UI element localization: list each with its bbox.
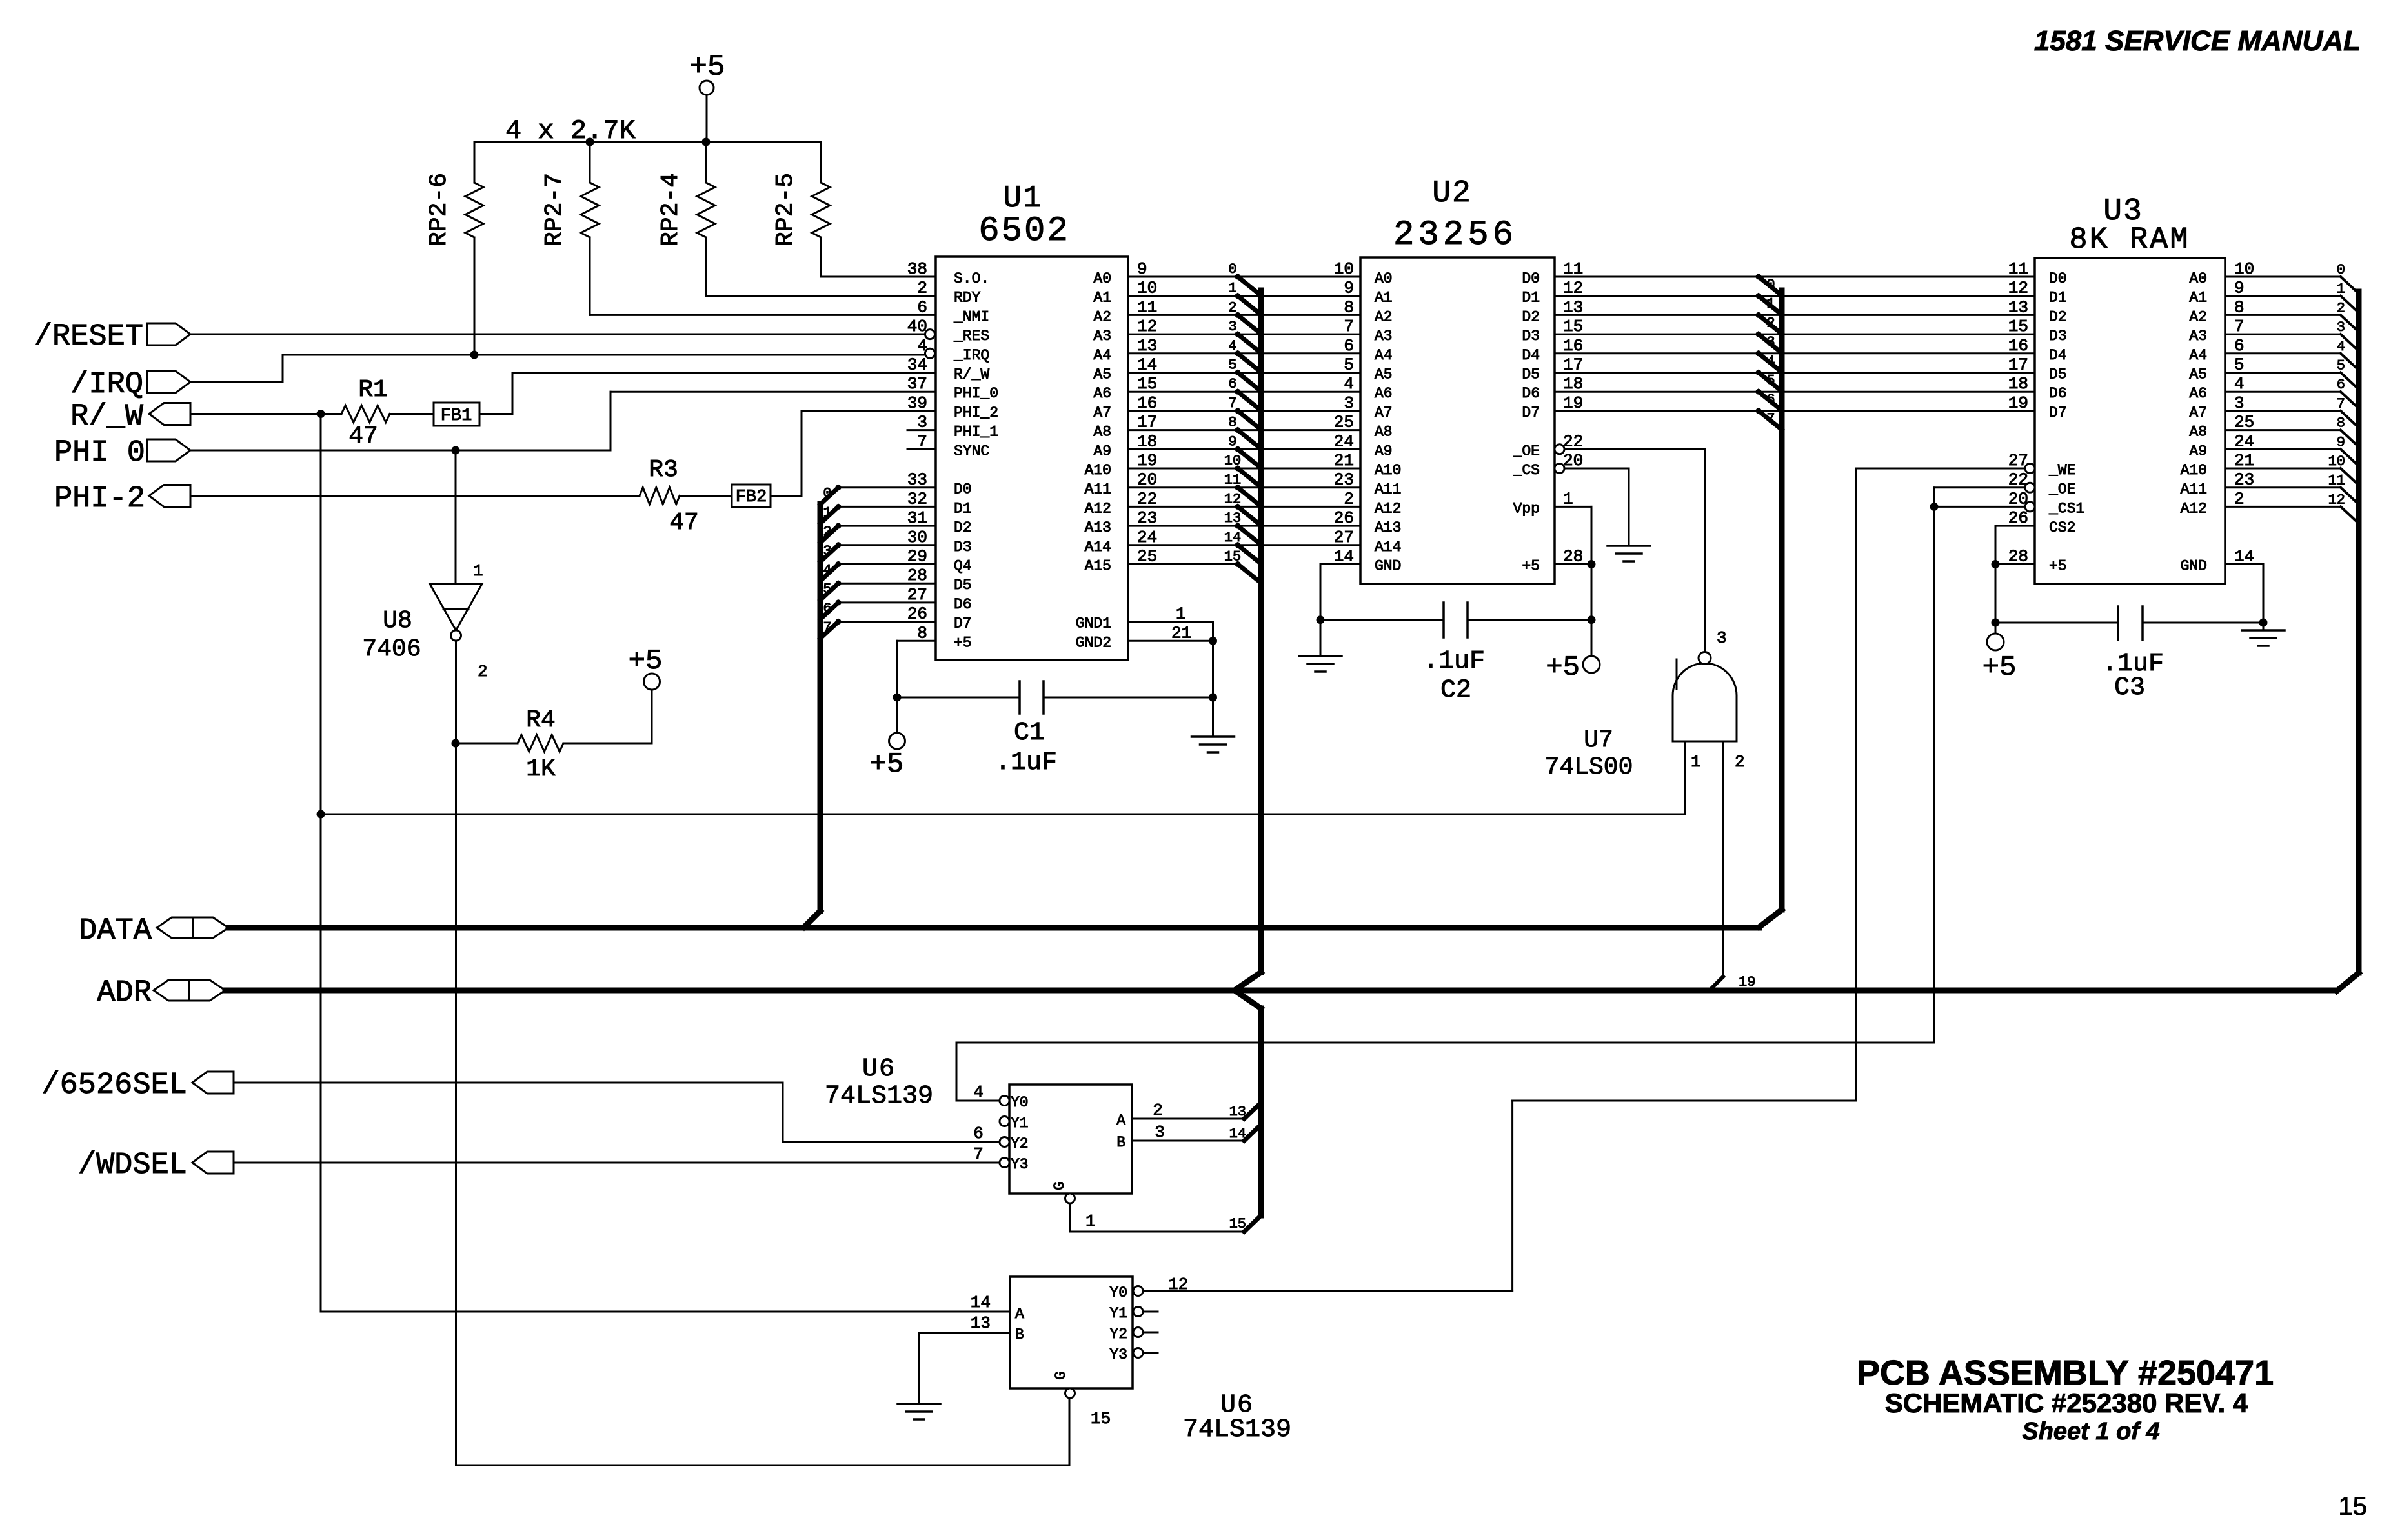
svg-text:8: 8 [2337, 415, 2345, 432]
svg-text:DATA: DATA [79, 914, 152, 948]
svg-text:0: 0 [823, 486, 831, 502]
svg-text:9: 9 [1344, 279, 1354, 298]
svg-text:GND1: GND1 [1076, 615, 1111, 632]
svg-text:74LS00: 74LS00 [1545, 754, 1633, 781]
wire DATA bus [228, 925, 1759, 931]
svg-text:A0: A0 [1093, 270, 1111, 287]
capacitor C3 [1995, 606, 2263, 703]
svg-text:ADR: ADR [97, 976, 152, 1010]
svg-text:B: B [1015, 1326, 1024, 1343]
value label 4 x 2.7K [505, 115, 636, 146]
svg-text:7: 7 [1228, 395, 1236, 412]
svg-text:Vpp: Vpp [1513, 500, 1540, 517]
svg-text:4: 4 [1344, 374, 1354, 394]
svg-text:8: 8 [1344, 297, 1354, 317]
svg-text:13: 13 [971, 1314, 991, 1333]
port PHI 0 [54, 436, 190, 470]
svg-text:Y3: Y3 [1011, 1156, 1029, 1173]
ground (U3) [2242, 630, 2285, 646]
svg-text:D1: D1 [954, 500, 972, 517]
svg-text:7: 7 [1766, 411, 1775, 427]
svg-text:PHI 0: PHI 0 [54, 436, 145, 470]
wire U1 GND1 [1128, 605, 1213, 737]
wire U7 pin2 to ADR tap 19 [1710, 741, 1723, 990]
svg-text:SYNC: SYNC [954, 443, 989, 459]
svg-text:A7: A7 [1375, 405, 1393, 421]
svg-text:24: 24 [1334, 432, 1354, 451]
wire U3 _OE [1934, 486, 2025, 488]
svg-text:A5: A5 [1375, 366, 1393, 383]
pin 12 label U6b [1168, 1275, 1188, 1294]
wire resistor pack rail [474, 141, 821, 143]
svg-text:C3: C3 [2114, 674, 2145, 703]
svg-text:11: 11 [2008, 259, 2028, 279]
svg-text:RP2-4: RP2-4 [657, 173, 685, 246]
svg-text:.1uF: .1uF [1423, 647, 1485, 676]
svg-text:7: 7 [973, 1145, 984, 1164]
svg-text:Y2: Y2 [1011, 1135, 1029, 1152]
svg-text:A0: A0 [2189, 270, 2207, 287]
svg-text:PCB ASSEMBLY #250471: PCB ASSEMBLY #250471 [1857, 1354, 2274, 1392]
junction C1 left [893, 694, 902, 702]
svg-text:4: 4 [1228, 338, 1236, 354]
wire U7 pin1 to R/_W node [321, 741, 1685, 814]
svg-text:5: 5 [1766, 373, 1775, 389]
svg-text:15: 15 [1224, 549, 1241, 565]
resistor RP2-7 [541, 142, 936, 315]
svg-text:6: 6 [1228, 376, 1236, 392]
svg-text:6502: 6502 [978, 212, 1070, 251]
svg-text:D5: D5 [954, 577, 972, 594]
U3 left pin names [2048, 270, 2084, 575]
U6a pin names [1011, 1094, 1125, 1190]
wire U3 _WE [1856, 468, 2025, 470]
svg-text:A12: A12 [1375, 500, 1401, 517]
pin 1 label U7 [1691, 752, 1701, 772]
svg-text:34: 34 [907, 355, 927, 375]
svg-text:A: A [1015, 1306, 1024, 1323]
svg-text:2: 2 [478, 662, 488, 681]
svg-text:SCHEMATIC #252380 REV. 4: SCHEMATIC #252380 REV. 4 [1885, 1388, 2248, 1418]
U1 right pin names [1076, 270, 1111, 651]
wire U1 +5 pin [897, 641, 936, 733]
ferrite bead FB2 [732, 485, 771, 507]
svg-text:3: 3 [2337, 319, 2345, 335]
svg-text:A6: A6 [1093, 385, 1111, 402]
svg-text:A3: A3 [1375, 328, 1393, 345]
svg-text:+5: +5 [954, 634, 972, 651]
svg-text:Y1: Y1 [1109, 1305, 1127, 1322]
svg-text:A15: A15 [1085, 558, 1111, 575]
svg-text:11: 11 [2328, 473, 2345, 489]
junction GND [1209, 637, 1217, 702]
port /WDSEL [78, 1148, 234, 1183]
chip U1 6502 [936, 181, 1128, 660]
pin 7 label U6a [973, 1145, 984, 1164]
svg-text:15: 15 [2008, 317, 2028, 336]
svg-text:RP2-5: RP2-5 [772, 173, 800, 246]
wire ADR bus [225, 988, 2336, 994]
svg-text:D7: D7 [1522, 405, 1540, 421]
svg-text:PHI_0: PHI_0 [954, 385, 998, 402]
svg-text:0: 0 [1228, 261, 1236, 277]
svg-text:Y1: Y1 [1011, 1115, 1029, 1132]
svg-text:A14: A14 [1375, 539, 1401, 555]
address bus taps [1235, 274, 1262, 583]
svg-text:Y0: Y0 [1011, 1094, 1029, 1111]
wire U6b Y0 to U3 _WE [1143, 468, 1856, 1292]
svg-text:GND: GND [2181, 558, 2207, 575]
svg-text:2: 2 [2337, 300, 2345, 316]
ground (U1) [1192, 737, 1235, 752]
svg-text:14: 14 [1229, 1126, 1246, 1142]
bus tap number 19 [1739, 974, 1755, 990]
svg-text:PHI_2: PHI_2 [954, 405, 998, 421]
wire U2 +5 pin [1555, 563, 1591, 565]
svg-text:2: 2 [1735, 752, 1745, 772]
wire PHI-2 to R3 [190, 495, 640, 497]
U1 right pin numbers [1137, 259, 1157, 566]
svg-text:13: 13 [1224, 510, 1241, 526]
svg-text:A8: A8 [1093, 424, 1111, 441]
svg-text:A3: A3 [2189, 328, 2207, 345]
svg-text:A4: A4 [2189, 347, 2207, 364]
svg-text:9: 9 [2337, 434, 2345, 450]
svg-text:4: 4 [2337, 339, 2345, 355]
wire U3 +5 pin [1995, 565, 2035, 634]
data bus (vertical, right) [1779, 290, 1785, 910]
address bus tap numbers 0-15 [1224, 261, 1241, 565]
port /RESET [34, 320, 190, 354]
data bus taps (U1 side) [820, 485, 842, 638]
svg-text:A10: A10 [2181, 462, 2207, 479]
junction C2 left [1317, 615, 1325, 624]
svg-text:G: G [1053, 1371, 1069, 1380]
resistor R1 [341, 376, 390, 450]
title 1581 SERVICE MANUAL [2034, 25, 2361, 57]
svg-text:1: 1 [1766, 296, 1775, 312]
wire R4 to +5 [563, 690, 652, 743]
svg-text:+5: +5 [870, 748, 904, 781]
data bus tap numbers 0-7 [823, 486, 831, 636]
svg-text:2: 2 [1344, 489, 1354, 508]
svg-text:A6: A6 [1375, 385, 1393, 402]
port /6526SEL [41, 1068, 234, 1103]
U3 inversion bubbles [2025, 464, 2035, 512]
svg-text:6: 6 [973, 1124, 984, 1143]
svg-text:D3: D3 [1522, 328, 1540, 345]
svg-text:A11: A11 [2181, 481, 2207, 498]
svg-text:15: 15 [1229, 1216, 1246, 1232]
svg-text:/IRQ: /IRQ [70, 368, 143, 402]
svg-text:Y2: Y2 [1109, 1326, 1127, 1343]
svg-text:6: 6 [823, 601, 831, 617]
svg-text:4 x 2.7K: 4 x 2.7K [505, 115, 636, 146]
svg-text:9: 9 [1228, 434, 1236, 450]
power +5 (top) [689, 50, 725, 95]
svg-text:47: 47 [669, 509, 699, 537]
svg-text:7: 7 [823, 620, 831, 636]
junction R4 [452, 739, 460, 748]
pin 4 label U6a [973, 1083, 984, 1102]
svg-text:6: 6 [1766, 392, 1775, 408]
svg-text:+5: +5 [689, 50, 725, 84]
U6b Y stubs [1143, 1312, 1158, 1353]
U2 left pin names [1375, 270, 1401, 575]
wire /IRQ to U1 _IRQ [190, 355, 925, 382]
svg-text:0: 0 [2337, 262, 2345, 278]
wire U3 _OE/_CS1 to U6a Y0 [956, 488, 1934, 1101]
data bus (vertical, left of U1) [804, 504, 820, 927]
svg-text:A7: A7 [1093, 405, 1111, 421]
power +5 (U3) [1982, 634, 2017, 684]
wire U3 CS2 to +5 [1995, 526, 2035, 564]
text PCB ASSEMBLY #250471 [1857, 1354, 2274, 1392]
svg-text:D7: D7 [954, 615, 972, 632]
svg-text:_NMI: _NMI [953, 308, 989, 325]
svg-text:/RESET: /RESET [34, 320, 143, 354]
wire U2 GND [1320, 565, 1360, 657]
svg-text:/6526SEL: /6526SEL [41, 1068, 187, 1103]
U6b pin names [1015, 1285, 1127, 1380]
U1 inversion bubbles [925, 330, 935, 359]
svg-text:1K: 1K [526, 755, 556, 783]
junction U3 +5 [1992, 560, 2000, 627]
svg-text:74LS139: 74LS139 [825, 1082, 933, 1111]
svg-text:25: 25 [1334, 413, 1354, 432]
wire R1 to FB1 [390, 413, 434, 415]
power +5 (C1) [870, 733, 905, 781]
svg-text:6: 6 [917, 297, 927, 317]
wire U8 output down [455, 641, 457, 1465]
svg-text:_OE: _OE [2048, 481, 2075, 498]
U2 inversion bubbles [1555, 445, 1564, 474]
svg-text:D1: D1 [2049, 290, 2067, 306]
svg-text:A5: A5 [2189, 366, 2207, 383]
svg-text:8K RAM: 8K RAM [2069, 223, 2190, 257]
svg-text:A2: A2 [1093, 308, 1111, 325]
svg-text:+5: +5 [1982, 652, 2017, 684]
wire U1 GND2 [1128, 623, 1213, 643]
pin 2 label U6a [1153, 1101, 1163, 1120]
svg-text:.1uF: .1uF [995, 748, 1057, 777]
svg-text:A4: A4 [1093, 347, 1111, 364]
svg-text:R4: R4 [526, 706, 556, 734]
svg-text:14: 14 [971, 1293, 991, 1312]
svg-text:U7: U7 [1584, 726, 1613, 754]
chip U6 74LS139 (second half) [1010, 1277, 1291, 1445]
wire FB1 to U1 R/_W [479, 373, 936, 414]
svg-text:D6: D6 [954, 596, 972, 613]
svg-text:21: 21 [1171, 623, 1191, 643]
svg-text:D2: D2 [2049, 308, 2067, 325]
svg-text:7: 7 [2337, 396, 2345, 412]
svg-text:1: 1 [1085, 1212, 1096, 1231]
svg-text:1: 1 [823, 505, 831, 521]
capacitor C2 [1320, 603, 1591, 705]
svg-text:1: 1 [1691, 752, 1701, 772]
svg-text:5: 5 [1344, 355, 1354, 375]
svg-text:S.O.: S.O. [954, 270, 989, 287]
svg-text:A0: A0 [1375, 270, 1393, 287]
svg-text:A8: A8 [2189, 424, 2207, 441]
svg-text:Q4: Q4 [954, 558, 972, 575]
svg-text:37: 37 [907, 374, 927, 394]
svg-text:2: 2 [917, 279, 927, 298]
junction [586, 138, 711, 146]
wire /RESET to U1 _RES [190, 334, 925, 335]
wire U1 data pin lines [838, 488, 936, 622]
svg-text:A2: A2 [2189, 308, 2207, 325]
svg-text:A5: A5 [1093, 366, 1111, 383]
ADR bus (vertical right) [2337, 292, 2359, 991]
svg-text:FB1: FB1 [441, 406, 472, 426]
svg-text:17: 17 [2008, 355, 2028, 375]
svg-text:D5: D5 [2049, 366, 2067, 383]
resistor RP2-4 [657, 142, 936, 296]
wire +5 to resistor rail [706, 95, 708, 142]
wire U6a G to bus tap 15 [1070, 1203, 1261, 1232]
svg-text:+5: +5 [629, 645, 663, 677]
resistor R3 [640, 456, 699, 537]
svg-text:47: 47 [348, 423, 378, 450]
ADR bus tap numbers 0-12 [2328, 262, 2345, 508]
inverter U8 7406 [362, 584, 482, 663]
svg-text:7: 7 [1344, 317, 1354, 336]
wire R/_W to R1 [190, 413, 341, 415]
U3 right pin numbers [2234, 259, 2254, 566]
svg-text:RP2-6: RP2-6 [425, 173, 453, 246]
svg-text:21: 21 [1334, 451, 1354, 470]
svg-text:D6: D6 [1522, 385, 1540, 402]
svg-text:A13: A13 [1375, 519, 1401, 536]
svg-text:D2: D2 [1522, 308, 1540, 325]
svg-text:R/_W: R/_W [954, 366, 989, 383]
svg-text:_RES: _RES [953, 328, 989, 345]
svg-text:A9: A9 [1093, 443, 1111, 459]
svg-text:8: 8 [1228, 415, 1236, 431]
svg-text:RP2-7: RP2-7 [541, 173, 569, 246]
svg-text:3: 3 [1717, 628, 1727, 648]
address bus merge into ADR [1235, 972, 1261, 1008]
text Sheet 1 of 4 [2022, 1418, 2159, 1445]
svg-text:3: 3 [1155, 1123, 1165, 1142]
svg-text:U8: U8 [383, 607, 412, 635]
svg-text:A: A [1116, 1112, 1125, 1129]
svg-text:A9: A9 [1375, 443, 1393, 459]
wire U6a B to bus tap 14 [1132, 1125, 1261, 1142]
svg-text:PHI_1: PHI_1 [954, 424, 998, 441]
ground (U6b B) [898, 1404, 940, 1419]
data bus merge into DATA [1759, 910, 1782, 927]
data bus taps (U2 side) [1756, 274, 1782, 430]
svg-text:5: 5 [1228, 357, 1236, 374]
svg-text:3: 3 [1228, 319, 1236, 335]
svg-text:PHI-2: PHI-2 [54, 482, 145, 516]
power +5 (U2) [1546, 652, 1600, 684]
ferrite bead FB1 [434, 403, 479, 426]
data bus tap numbers 0-7 (right) [1766, 277, 1775, 427]
svg-text:A12: A12 [2181, 500, 2207, 517]
U2 right pin numbers [1563, 259, 1583, 566]
U3 left pin numbers [2008, 259, 2028, 566]
U2 left pin numbers [1334, 259, 1354, 566]
svg-text:3: 3 [1344, 394, 1354, 413]
svg-text:2: 2 [1153, 1101, 1163, 1120]
svg-text:0: 0 [1766, 277, 1775, 293]
svg-text:1: 1 [2337, 281, 2345, 297]
svg-text:D3: D3 [2049, 328, 2067, 345]
svg-text:A1: A1 [1093, 290, 1111, 306]
port DATA [79, 914, 228, 948]
svg-text:5: 5 [823, 581, 831, 597]
port PHI-2 [54, 482, 190, 516]
svg-text:19: 19 [2008, 394, 2028, 413]
junction R/_W pin1 [317, 810, 325, 819]
pin 6 label U6a [973, 1124, 984, 1143]
port R/_W [70, 400, 190, 434]
svg-text:U2: U2 [1432, 176, 1472, 211]
ground (U2 _CS) [1608, 546, 1650, 561]
nand gate U7 74LS00 [1545, 652, 1737, 782]
wire FB2 to U1 PHI_2 [771, 411, 936, 496]
wire R/_W net vertical [320, 414, 322, 1312]
svg-text:_WE: _WE [2048, 462, 2075, 479]
svg-text:R3: R3 [649, 456, 678, 484]
svg-text:A11: A11 [1085, 481, 1111, 498]
svg-text:16: 16 [2008, 336, 2028, 355]
wire U2 _OE to U7 output [1564, 449, 1705, 652]
U6a output bubbles [1000, 1096, 1075, 1204]
svg-text:6: 6 [2337, 377, 2345, 393]
svg-text:A1: A1 [1375, 290, 1393, 306]
svg-text:Y0: Y0 [1109, 1285, 1127, 1301]
junction RP2-6 on /IRQ [470, 351, 479, 359]
svg-text:A3: A3 [1093, 328, 1111, 345]
svg-text:+5: +5 [1522, 558, 1540, 575]
svg-text:B: B [1116, 1134, 1125, 1151]
svg-text:_OE: _OE [1513, 443, 1540, 459]
wire U2 _CS to ground [1564, 468, 1629, 546]
wire U3 _CS1 [1934, 506, 2025, 508]
port ADR [97, 976, 225, 1010]
svg-text:A8: A8 [1375, 424, 1393, 441]
U3 right pin names [2181, 270, 2207, 575]
pin 2 label U8 [478, 662, 488, 681]
svg-text:_IRQ: _IRQ [953, 347, 989, 364]
address bus (below ADR) [1258, 1008, 1264, 1215]
text SCHEMATIC #252380 REV. 4 [1885, 1388, 2248, 1418]
wire U8 out to R4 [460, 743, 518, 745]
wire /WDSEL to U6a Y3 [234, 1162, 1000, 1164]
wire /6526SEL to U6a Y2 [234, 1083, 1000, 1142]
svg-text:18: 18 [2008, 374, 2028, 394]
wire U3 GND [2225, 565, 2263, 631]
svg-text:A7: A7 [2189, 405, 2207, 421]
svg-text:A4: A4 [1375, 347, 1393, 364]
svg-text:+5: +5 [2049, 558, 2067, 575]
svg-text:A9: A9 [2189, 443, 2207, 459]
svg-text:1: 1 [1176, 605, 1186, 624]
svg-text:1581 SERVICE MANUAL: 1581 SERVICE MANUAL [2034, 25, 2361, 57]
svg-text:A11: A11 [1375, 481, 1401, 498]
svg-text:14: 14 [1224, 530, 1241, 546]
svg-text:11: 11 [1224, 472, 1241, 488]
chip U2 23256 [1360, 176, 1555, 584]
pin 2 label U7 [1735, 752, 1745, 772]
svg-text:4: 4 [1766, 354, 1775, 370]
svg-text:G: G [1051, 1181, 1068, 1190]
